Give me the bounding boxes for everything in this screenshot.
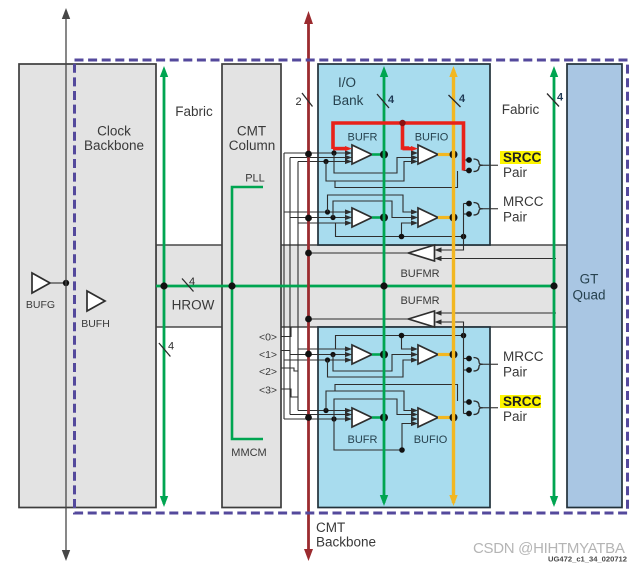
wire upper loop to BUFIO input 2 bbox=[333, 355, 411, 372]
pin pad dots bbox=[466, 399, 472, 405]
svg-text:MRCC: MRCC bbox=[503, 349, 544, 364]
wire BUFMR lower input 1 from fabric bbox=[442, 312, 557, 314]
wire BUFMR lower input 2 from pin column bbox=[442, 322, 464, 336]
buffer BUFR triangle bbox=[352, 345, 372, 364]
highlight SRCC bottom bbox=[500, 395, 541, 408]
global clock backbone vertical (black) bbox=[65, 12, 67, 558]
svg-text:4: 4 bbox=[388, 94, 395, 106]
wire loop to BUFIO input 3 bbox=[326, 162, 411, 182]
svg-text:SRCC: SRCC bbox=[503, 150, 542, 165]
svg-text:<1>: <1> bbox=[259, 349, 277, 361]
wire upper loop to BUFIO input 2 bbox=[333, 201, 411, 218]
buffer BUFMR lower triangle bbox=[409, 311, 435, 327]
svg-text:PLL: PLL bbox=[245, 173, 265, 185]
node green junction x232 bbox=[228, 282, 235, 289]
node green junction x384 bbox=[380, 282, 387, 289]
svg-text:CMT: CMT bbox=[316, 520, 345, 535]
svg-text:Backbone: Backbone bbox=[84, 138, 144, 153]
buffer BUFIO triangle bbox=[418, 145, 438, 164]
svg-text:Pair: Pair bbox=[503, 409, 528, 424]
buffer BUFG triangle bbox=[32, 273, 50, 293]
node loop junction 1 bbox=[331, 150, 336, 155]
wire upper loop to BUFIO input 1 bbox=[328, 195, 412, 212]
svg-text:MMCM: MMCM bbox=[231, 447, 266, 459]
svg-text:BUFMR: BUFMR bbox=[400, 268, 439, 280]
wire lower loop to BUFIO input (G4) bbox=[334, 419, 402, 450]
svg-text:<2>: <2> bbox=[259, 366, 277, 378]
wire feed 2 into BUFR bbox=[290, 217, 352, 219]
wire BUFMR upper input 2 from fabric bbox=[442, 258, 557, 260]
buffer BUFR triangle bbox=[352, 408, 372, 427]
node loop junction 1 bbox=[331, 416, 336, 421]
svg-text:BUFIO: BUFIO bbox=[415, 132, 449, 144]
wire BUFR output stub (green) bbox=[372, 153, 384, 156]
marker 4 yellow bbox=[449, 95, 461, 107]
wire bus A x=284 bbox=[283, 153, 285, 419]
buffer BUFIO triangle bbox=[418, 345, 438, 364]
svg-text:Fabric: Fabric bbox=[502, 102, 540, 117]
wire lower pin wire bbox=[336, 336, 464, 350]
wire pin stubs bbox=[464, 159, 470, 161]
svg-text:<0>: <0> bbox=[259, 332, 277, 344]
CMT backbone vertical (dark red) bbox=[307, 20, 310, 552]
wire pin stubs bbox=[464, 203, 470, 205]
green I/O bank arrow centre bbox=[383, 70, 386, 503]
node BUFG output on backbone bbox=[63, 280, 69, 286]
wire loop to BUFIO input 3 bbox=[326, 391, 411, 411]
svg-text:4: 4 bbox=[189, 276, 195, 288]
svg-text:Column: Column bbox=[229, 138, 276, 153]
svg-text:Pair: Pair bbox=[503, 365, 528, 380]
svg-text:Clock: Clock bbox=[97, 124, 131, 139]
dashed clock region border bbox=[75, 60, 628, 513]
wire BUFIO output stub (yellow) bbox=[438, 216, 454, 219]
pin pad dots bbox=[466, 201, 472, 207]
CMT Column box bbox=[222, 64, 281, 508]
yellow BUFIO spine bbox=[452, 70, 455, 503]
buffer BUFR triangle bbox=[352, 145, 372, 164]
node loop junction 2 bbox=[323, 408, 328, 413]
marker 2 on CMT backbone bbox=[302, 93, 313, 107]
buffer BUFH triangle bbox=[87, 291, 105, 311]
wire bus C x=298 bbox=[297, 162, 299, 411]
wire pin column bottom bbox=[463, 336, 465, 414]
wire BUFMR lower output to CMT backbone bbox=[309, 318, 409, 320]
wire branch to BUFIO input 3 bbox=[402, 223, 412, 237]
wire feed 2 into BUFR bbox=[290, 157, 352, 159]
pin pair brace bbox=[474, 401, 484, 415]
node BUFIO output on yellow spine bbox=[450, 151, 458, 159]
nodes on CMT backbone bbox=[305, 151, 312, 158]
svg-text:Pair: Pair bbox=[503, 210, 528, 225]
node BUFR output on green spine bbox=[380, 351, 388, 359]
pin pad dots bbox=[466, 157, 472, 163]
wire bus B x=290 bbox=[289, 158, 291, 415]
wire brace to label bbox=[483, 208, 498, 210]
green HROW spine horizontal bbox=[156, 285, 554, 288]
wire pin stubs bbox=[464, 358, 470, 360]
svg-text:Quad: Quad bbox=[572, 288, 605, 303]
pin pad dots bbox=[466, 356, 472, 362]
svg-text:<3>: <3> bbox=[259, 385, 277, 397]
svg-text:I/O: I/O bbox=[338, 75, 356, 90]
buffer BUFIO triangle bbox=[418, 208, 438, 227]
wire BUFMR upper output to CMT backbone bbox=[309, 252, 409, 254]
wire feed 3 into BUFR bbox=[298, 348, 352, 350]
node green junction x554 bbox=[550, 282, 557, 289]
node loop junction 2 bbox=[323, 159, 328, 164]
node loop junction 2 bbox=[330, 215, 335, 220]
wire BUFIO output stub (yellow) bbox=[438, 153, 454, 156]
node BUFR output on green spine bbox=[380, 151, 388, 159]
highlight SRCC top bbox=[500, 151, 541, 164]
node on red route bbox=[399, 120, 405, 126]
wire BUFG output bbox=[50, 282, 66, 284]
GT Quad box bbox=[567, 64, 622, 508]
node pin-wire junction bbox=[399, 333, 405, 339]
node loop junction 2 bbox=[330, 352, 335, 357]
wire pin stubs bbox=[464, 401, 470, 403]
buffer BUFIO triangle bbox=[418, 408, 438, 427]
node BUFR output on green spine bbox=[380, 414, 388, 422]
wire tap <1> bbox=[281, 351, 290, 355]
I/O Bank lower box bbox=[318, 327, 490, 508]
node pin-column junction bbox=[461, 333, 467, 339]
wire brace to label bbox=[483, 363, 498, 365]
wire feed 1 into BUFR bbox=[284, 418, 352, 420]
pin pair brace bbox=[474, 358, 484, 372]
svg-text:BUFR: BUFR bbox=[348, 132, 378, 144]
svg-text:SRCC: SRCC bbox=[503, 394, 542, 409]
green fabric arrow right bbox=[553, 70, 556, 504]
node lower loop junction bbox=[399, 447, 405, 453]
wire BUFR output stub (green) bbox=[372, 416, 384, 419]
svg-text:4: 4 bbox=[459, 93, 466, 105]
node BUFIO output on yellow spine bbox=[450, 414, 458, 422]
wire tap <3> bbox=[281, 389, 298, 397]
marker 4 green centre bbox=[377, 94, 389, 108]
node green junction x164 bbox=[160, 282, 167, 289]
node BUFIO output on yellow spine bbox=[450, 214, 458, 222]
svg-text:BUFH: BUFH bbox=[81, 318, 110, 330]
wire tap <2> bbox=[281, 368, 298, 371]
green PLL feed bbox=[232, 187, 263, 286]
node BUFIO output on yellow spine bbox=[450, 351, 458, 359]
wire BUFR output stub (green) bbox=[372, 216, 384, 219]
wire loop to BUFIO input 2 bbox=[334, 399, 411, 419]
wire pin column top bbox=[463, 204, 465, 237]
svg-text:CSDN @HIHTMYATBA: CSDN @HIHTMYATBA bbox=[473, 540, 625, 557]
wire upper loop to BUFIO input 1 bbox=[328, 360, 412, 377]
svg-text:4: 4 bbox=[557, 92, 564, 104]
svg-text:BUFG: BUFG bbox=[26, 299, 55, 311]
svg-text:HROW: HROW bbox=[172, 298, 215, 313]
pin pair brace bbox=[474, 159, 484, 172]
buffer BUFMR upper triangle bbox=[409, 245, 435, 261]
Clock Backbone box bbox=[19, 64, 156, 508]
I/O Bank upper box bbox=[318, 64, 490, 245]
wire feed 2 into BUFR bbox=[290, 414, 352, 416]
HROW band bbox=[156, 245, 567, 327]
wire feed 3 into BUFR bbox=[298, 410, 352, 412]
svg-text:MRCC: MRCC bbox=[503, 194, 544, 209]
node pin-wire junction bbox=[399, 234, 405, 240]
marker 4 fabric right bbox=[547, 94, 559, 107]
green MMCM feed bbox=[232, 286, 263, 439]
wire lower pin wire bbox=[336, 223, 464, 237]
svg-text:BUFMR: BUFMR bbox=[400, 295, 439, 307]
node pin-column junction bbox=[461, 234, 467, 240]
node loop junction 1 bbox=[325, 209, 330, 214]
svg-text:Backbone: Backbone bbox=[316, 535, 376, 550]
svg-text:BUFIO: BUFIO bbox=[414, 434, 448, 446]
wire tap <0> bbox=[281, 327, 291, 337]
svg-text:CMT: CMT bbox=[237, 124, 266, 139]
svg-text:Pair: Pair bbox=[503, 165, 528, 180]
svg-text:BUFR: BUFR bbox=[348, 434, 378, 446]
wire long loop to pin column bbox=[335, 171, 458, 188]
svg-text:Bank: Bank bbox=[333, 93, 364, 108]
node loop junction 1 bbox=[325, 357, 330, 362]
wire feed 3 into BUFR bbox=[298, 161, 352, 163]
wire BUFIO output stub (yellow) bbox=[438, 416, 454, 419]
wire brace to label bbox=[483, 407, 498, 409]
wire feed 1 into BUFR bbox=[284, 359, 352, 361]
svg-text:GT: GT bbox=[580, 272, 599, 287]
svg-text:Fabric: Fabric bbox=[175, 104, 213, 119]
svg-text:4: 4 bbox=[168, 341, 174, 353]
buffer BUFR triangle bbox=[352, 208, 372, 227]
wire long loop to pin column bbox=[335, 385, 458, 402]
svg-text:2: 2 bbox=[295, 96, 301, 108]
marker 4 fabric left lower bbox=[159, 343, 171, 357]
wire feed 1 into BUFR bbox=[284, 152, 352, 154]
marker 4 HROW bbox=[182, 279, 194, 292]
wire brace to label bbox=[483, 164, 498, 166]
wire feed 1 into BUFR bbox=[284, 211, 352, 213]
wire feed 3 into BUFR bbox=[298, 222, 352, 224]
wire feed 2 into BUFR bbox=[290, 354, 352, 356]
pin pair brace bbox=[474, 203, 484, 216]
green fabric arrow left bbox=[163, 70, 166, 504]
wire loop to BUFIO input 2 bbox=[334, 153, 411, 173]
wire BUFR output stub (green) bbox=[372, 353, 384, 356]
wire branch to BUFIO input 3 bbox=[402, 336, 412, 350]
red highlight route SRCC to BUFR/BUFIO bbox=[333, 123, 464, 171]
wire BUFMR upper input 1 from pin column bbox=[442, 237, 464, 251]
wire BUFIO output stub (yellow) bbox=[438, 353, 454, 356]
node BUFR output on green spine bbox=[380, 214, 388, 222]
